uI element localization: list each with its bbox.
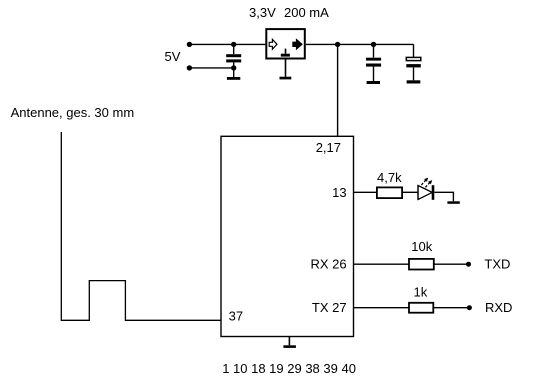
capacitor C1 [226,44,241,68]
svg-text:5V: 5V [165,49,181,64]
wire R3 to RXD [433,307,469,309]
svg-text:Antenne, ges. 30 mm: Antenne, ges. 30 mm [11,105,135,120]
LED light arrow 2 [425,180,432,187]
U1 internal ground symbol [281,49,290,57]
svg-text:RXD: RXD [485,300,512,315]
wire rail corner down to C3 [413,44,415,57]
svg-text:37: 37 [229,309,243,324]
node junction rail to IC [335,42,340,47]
ground below C2 [367,81,380,84]
svg-text:3,3V: 3,3V [249,5,276,20]
ground after LED [447,201,459,204]
svg-text:2,17: 2,17 [316,140,341,155]
LED D1 [418,185,433,200]
node junction C1 top [231,42,236,47]
node RXD terminal [467,305,472,310]
capacitor C2 [366,44,381,81]
node 5V terminal top [187,42,192,47]
node junction rail to C2 [371,42,376,47]
svg-text:13: 13 [332,185,346,200]
wire rail down to IC pin 2,17 [337,44,339,136]
voltage regulator U1 [266,29,305,58]
ground below U1 [280,60,292,80]
svg-text:1k: 1k [414,285,428,300]
svg-text:200 mA: 200 mA [284,5,329,20]
wire regulator output rail [306,43,414,45]
ground below U2 [283,337,296,348]
svg-text:TXD: TXD [484,257,510,272]
svg-text:4,7k: 4,7k [377,170,402,185]
wire R1 to LED [402,191,418,193]
wire R2 to TXD [434,263,469,265]
wire antenna [61,132,221,320]
node 5V terminal bottom [187,65,192,70]
svg-text:10k: 10k [411,239,432,254]
U1 output arrow (filled) [293,39,302,49]
resistor R2 10k [409,259,434,270]
LED light arrow 1 [421,178,428,185]
ground below C1 [227,68,240,80]
ground below C3 [407,80,421,83]
wire 5V- to C1 bottom [189,67,233,69]
wire 5V+ to regulator input [189,43,265,45]
wire LED to ground [434,192,453,201]
svg-text:1 10 18 19 29 38 39 40: 1 10 18 19 29 38 39 40 [222,361,356,376]
U1 input arrow (open) [269,39,277,49]
svg-text:RX 26: RX 26 [310,257,346,272]
node TXD terminal [466,262,471,267]
wire pin 13 to R1 [354,191,378,193]
resistor R1 4,7k [377,187,402,198]
node junction C1 bottom [231,65,236,70]
wire pin TX 27 to R3 [354,307,410,309]
svg-text:TX 27: TX 27 [312,300,347,315]
resistor R3 1k [409,303,433,313]
op-amp U2 main IC box [221,136,354,336]
capacitor C3 electrolytic [406,57,421,80]
wire pin RX 26 to R2 [354,263,410,265]
